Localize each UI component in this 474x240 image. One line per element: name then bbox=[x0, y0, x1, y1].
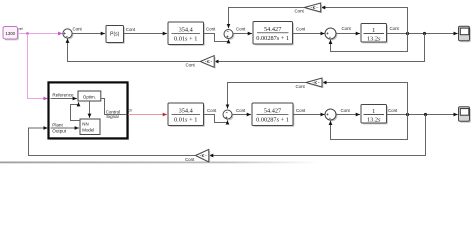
node branch ref bbox=[26, 32, 29, 35]
svg-text:Reference: Reference bbox=[52, 92, 74, 97]
svg-text:Cont: Cont bbox=[390, 26, 400, 31]
transfer function 1/13.2s bottom bbox=[361, 105, 388, 125]
svg-text:NN: NN bbox=[82, 121, 88, 126]
sum S1 bbox=[63, 29, 74, 40]
svg-text:Cont: Cont bbox=[185, 157, 195, 162]
constant block 1300 bbox=[3, 27, 19, 41]
wire S2 to TF2 bbox=[233, 33, 252, 35]
wire TF2b to sum S3b bbox=[294, 114, 325, 116]
wire S1 to P(s) bbox=[72, 33, 105, 35]
wire TF3 to scope bbox=[387, 33, 458, 35]
wire S3 to TF3 bbox=[336, 33, 360, 35]
wire Optim to Control Signal outport bbox=[101, 99, 126, 115]
svg-text:Cont: Cont bbox=[341, 108, 351, 113]
node branch A bbox=[406, 32, 409, 35]
block NN Model bbox=[80, 119, 100, 135]
svg-text:Cont: Cont bbox=[186, 63, 196, 68]
transfer function 54.427/(0.00287s+1) bottom bbox=[252, 103, 294, 127]
wire G2 to sum S1 bottom bbox=[68, 39, 201, 62]
transfer function 1/13.2s top bbox=[361, 24, 388, 44]
wire feedback to gain G1 (top) bbox=[321, 8, 408, 34]
wire TF3b to scope2 bbox=[387, 114, 458, 116]
svg-text:0.00287s + 1: 0.00287s + 1 bbox=[256, 35, 289, 42]
transfer function 354.4/(0.01s+1) top bbox=[168, 22, 205, 46]
block Optim bbox=[78, 91, 101, 101]
wire feedback outer to gain G2 bbox=[214, 34, 424, 62]
gain G4 bbox=[196, 149, 211, 163]
wire ref branch down to subsystem Reference port (pink) bbox=[28, 34, 48, 99]
svg-text:1: 1 bbox=[372, 108, 375, 115]
svg-text:354.4: 354.4 bbox=[179, 27, 194, 34]
svg-text:Cont: Cont bbox=[296, 84, 306, 89]
svg-text:Signal: Signal bbox=[106, 114, 119, 119]
wire 1300 to sum S1 (pink) bbox=[18, 33, 63, 35]
sum S2b bbox=[223, 110, 233, 120]
wire P(s) to plant TF1 bbox=[124, 33, 168, 35]
svg-text:1: 1 bbox=[372, 27, 375, 34]
wire Plant Output port to NN Model bbox=[51, 127, 79, 129]
wire S2b to TF2b bbox=[232, 114, 251, 116]
controller block P(s) bbox=[106, 26, 125, 44]
scope Scope2 bbox=[459, 107, 471, 123]
gain G1 bbox=[304, 3, 322, 13]
svg-text:54.427: 54.427 bbox=[264, 26, 281, 33]
gain G3 bbox=[306, 78, 323, 88]
svg-text:13.2s: 13.2s bbox=[367, 36, 381, 43]
svg-text:Cont: Cont bbox=[207, 108, 217, 113]
svg-text:Cont: Cont bbox=[73, 27, 83, 32]
svg-text:Cont: Cont bbox=[388, 108, 398, 113]
sum S3 bbox=[325, 28, 337, 40]
wire TF2 to sum S3 bbox=[293, 33, 325, 35]
svg-text:Cont: Cont bbox=[295, 9, 305, 14]
transfer function 354.4/(0.01s+1) bottom bbox=[168, 103, 205, 127]
wire G1 to sum S2 top bbox=[229, 8, 305, 29]
sum S2 bbox=[224, 30, 234, 40]
node branch B bbox=[423, 32, 426, 35]
wire G3 to sum S2b top bbox=[228, 83, 307, 109]
wire Control Signal to plant TF1b (red) bbox=[128, 114, 167, 116]
svg-text:Optim.: Optim. bbox=[83, 95, 96, 100]
gain G2 bbox=[200, 56, 215, 69]
svg-text:1300: 1300 bbox=[6, 31, 16, 36]
svg-text:Cont: Cont bbox=[236, 108, 246, 113]
svg-text:ref: ref bbox=[19, 27, 23, 31]
wire G4 to subsystem Plant Output port bbox=[29, 128, 196, 156]
wire feedback to sum S3b bottom bbox=[331, 115, 408, 140]
svg-text:Plant: Plant bbox=[52, 123, 63, 128]
canvas bottom edge band bbox=[0, 162, 320, 164]
svg-text:Cont: Cont bbox=[206, 27, 216, 32]
node branch C bbox=[406, 113, 409, 116]
sum S3b bbox=[325, 109, 337, 121]
subsystem NN controller bbox=[49, 82, 130, 139]
wire feedback to sum S3 bottom bbox=[331, 34, 408, 52]
svg-text:P(s): P(s) bbox=[110, 32, 120, 38]
svg-text:Cont: Cont bbox=[296, 108, 306, 113]
svg-text:Output: Output bbox=[52, 128, 67, 133]
svg-text:Cont: Cont bbox=[126, 27, 136, 32]
svg-text:0.01s + 1: 0.01s + 1 bbox=[174, 36, 197, 43]
svg-text:0.01s + 1: 0.01s + 1 bbox=[174, 117, 197, 124]
svg-text:Cont: Cont bbox=[296, 26, 306, 31]
svg-text:354.4: 354.4 bbox=[179, 108, 194, 115]
wire Optim to NN Model bbox=[89, 101, 91, 118]
wire TF1b to sum S2b bottom bbox=[204, 115, 228, 123]
svg-text:0.00287s + 1: 0.00287s + 1 bbox=[256, 117, 289, 124]
svg-text:13.2s: 13.2s bbox=[367, 117, 381, 124]
wire TF1 to sum S2 bottom bbox=[204, 34, 229, 42]
svg-text:Model: Model bbox=[82, 127, 94, 132]
node branch D bbox=[424, 113, 427, 116]
svg-text:Cont: Cont bbox=[236, 27, 246, 32]
svg-text:Cont: Cont bbox=[342, 26, 352, 31]
wire Reference port to Optim bbox=[51, 98, 77, 100]
wire NN Model to Optim (loop) bbox=[71, 102, 81, 120]
transfer function 54.427/(0.00287s+1) top bbox=[253, 22, 294, 46]
svg-text:54.427: 54.427 bbox=[264, 108, 281, 115]
scope Scope1 bbox=[459, 26, 471, 42]
wire feedback to gain G3 (bottom system top) bbox=[322, 83, 407, 115]
wire S3b to TF3b bbox=[336, 114, 360, 116]
wire feedback outer to gain G4 bbox=[209, 115, 426, 156]
